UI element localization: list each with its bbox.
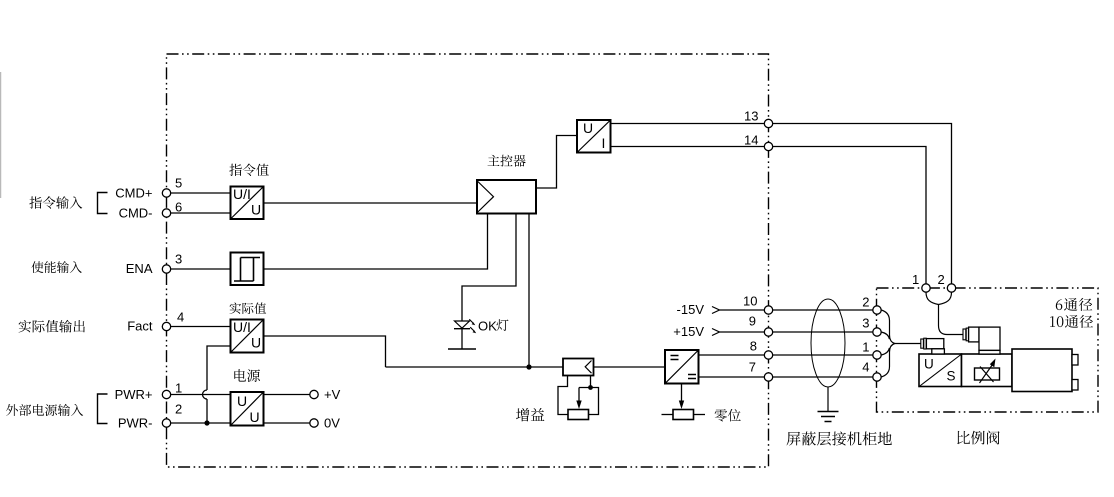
ground bar 3 xyxy=(825,421,832,423)
label 使能输入 enable input xyxy=(31,261,82,273)
terminal +V xyxy=(310,390,318,398)
block zero (DC-DC) xyxy=(665,350,699,384)
block actual value U/I-U xyxy=(231,320,264,353)
terminal 9 xyxy=(764,328,772,336)
svg-text:U: U xyxy=(583,120,593,136)
bracket command input pair xyxy=(98,193,108,214)
svg-text:10: 10 xyxy=(743,294,757,309)
valve terminal 4 xyxy=(873,373,881,381)
bracket pins 2/3/1/4 merge xyxy=(881,310,895,377)
valve solenoid section xyxy=(962,354,1013,387)
svg-text:U/I: U/I xyxy=(233,319,251,335)
label 比例阀 proportional valve xyxy=(957,431,999,445)
page edge artifact xyxy=(0,72,2,198)
solenoid inner box xyxy=(975,368,1000,380)
wire actual supply branch lower xyxy=(206,399,208,423)
terminal 5 CMD+ xyxy=(162,189,170,197)
cable shield ellipse xyxy=(811,299,845,387)
zero pot left lead xyxy=(662,414,674,416)
wire +15V to pin 9 xyxy=(720,331,873,333)
block command value U/I-U xyxy=(231,187,264,220)
svg-text:+15V: +15V xyxy=(673,324,704,339)
wire command block to controller xyxy=(264,202,478,204)
svg-text:1: 1 xyxy=(175,381,182,396)
svg-text:2: 2 xyxy=(938,272,945,287)
potentiometer zero xyxy=(673,410,694,420)
wire Fact (pin 4 to actual block) xyxy=(171,326,231,328)
label 外部电源输入 external power input xyxy=(6,404,83,416)
controller triangle xyxy=(478,182,494,213)
diagonal U-S box xyxy=(920,355,961,387)
svg-text:U: U xyxy=(251,335,261,351)
svg-text:-15V: -15V xyxy=(677,302,705,317)
shield ground stem xyxy=(827,387,829,412)
bracket join pin 3 xyxy=(881,332,889,339)
ground bar 2 xyxy=(821,416,835,418)
bracket power input pair xyxy=(98,394,108,424)
gain pot left leg xyxy=(558,376,568,415)
junction controller/bus xyxy=(526,364,531,369)
wire CMD- (pin 6 to command block) xyxy=(171,212,231,214)
valve top pin curves merge xyxy=(926,292,952,304)
valve plug large (on solenoid) xyxy=(963,327,1000,354)
svg-text:CMD+: CMD+ xyxy=(115,186,152,201)
svg-text:2: 2 xyxy=(175,402,182,417)
svg-text:5: 5 xyxy=(175,176,182,191)
wire controller to U/I converter xyxy=(536,136,577,189)
block enable hysteresis xyxy=(231,253,264,286)
wire -15V to pin 10 xyxy=(720,309,873,311)
junction on PWR- wire xyxy=(204,420,209,425)
label 灯 of OK lamp xyxy=(496,319,508,331)
svg-text:4: 4 xyxy=(862,360,869,375)
proportional valve border (dash-dot) xyxy=(877,288,1099,412)
gain wiper bar xyxy=(579,388,599,415)
valve body xyxy=(1012,349,1072,392)
svg-text:2: 2 xyxy=(862,295,869,310)
bracket join pin 1 xyxy=(881,348,889,355)
valve transducer U-S box xyxy=(919,354,962,387)
wire 13 (U/I out to valve pin 2) xyxy=(611,124,952,285)
wire bracket to valve plug xyxy=(895,343,921,345)
solenoid cross stroke xyxy=(980,367,994,383)
svg-text:S: S xyxy=(947,369,956,384)
zero pot arrow shaft xyxy=(681,384,683,402)
label 指令值 command value xyxy=(229,164,269,176)
terminal 14 xyxy=(764,142,772,150)
wire CMD+ (pin 5 to command block) xyxy=(171,192,231,194)
terminal 13 xyxy=(764,119,772,127)
solenoid arrowhead xyxy=(990,359,996,368)
svg-text:3: 3 xyxy=(175,252,182,267)
terminal 7 xyxy=(764,373,772,381)
svg-text:0V: 0V xyxy=(324,416,340,431)
label 零位 zero xyxy=(715,409,741,422)
valve tab lower xyxy=(1072,380,1078,391)
gain chevron xyxy=(585,361,591,374)
gain wiper arrowhead xyxy=(576,401,581,410)
label 实际值 actual value xyxy=(230,303,267,315)
terminal 6 CMD- xyxy=(162,209,170,217)
svg-text:U: U xyxy=(237,393,247,409)
svg-text:PWR-: PWR- xyxy=(118,416,153,431)
terminal 8 xyxy=(764,351,772,359)
wire PWR- (pin 2 to power block) xyxy=(171,422,231,424)
wire actual block to signal bus xyxy=(264,336,386,367)
terminal 4 Fact xyxy=(162,322,170,330)
svg-text:U: U xyxy=(924,357,934,372)
solenoid arrow shaft xyxy=(980,364,994,384)
svg-text:13: 13 xyxy=(744,109,758,124)
label 10通径 xyxy=(1050,315,1093,328)
svg-text:9: 9 xyxy=(749,314,756,329)
valve plug terminal 2 xyxy=(947,284,955,292)
valve terminal 1b xyxy=(873,351,881,359)
valve tab upper xyxy=(1072,355,1078,366)
arrow +15V xyxy=(712,329,720,336)
wire controller to bus xyxy=(528,214,530,368)
terminal 2 PWR- xyxy=(162,419,170,427)
valve plug terminal 1 xyxy=(922,284,930,292)
wire 14 (U/I out to valve pin 1) xyxy=(611,147,927,285)
label 实际值输出 actual value output xyxy=(19,320,85,333)
diagonal actual block xyxy=(232,321,263,352)
svg-text:ENA: ENA xyxy=(126,261,153,276)
svg-text:I: I xyxy=(602,135,606,151)
svg-text:3: 3 xyxy=(862,316,869,331)
svg-text:U/I: U/I xyxy=(233,186,251,202)
valve terminal 2 xyxy=(873,306,881,314)
wire controller to OK LED xyxy=(462,214,516,322)
block main controller U1 xyxy=(477,180,536,214)
terminal 10 xyxy=(764,306,772,314)
diagonal command block xyxy=(232,188,263,219)
valve plug small (on U/S box) xyxy=(921,338,945,354)
label 主控器 main controller xyxy=(488,155,526,167)
LED OK lamp xyxy=(448,319,476,349)
svg-text:14: 14 xyxy=(744,133,758,148)
block gain xyxy=(563,359,594,376)
label 屏蔽层接机柜地 shield to cabinet ground xyxy=(787,432,892,446)
terminal 1 PWR+ xyxy=(162,390,170,398)
svg-text:8: 8 xyxy=(750,339,757,354)
hysteresis symbol xyxy=(234,258,260,282)
equals top-left xyxy=(671,356,679,360)
wire enable block to controller xyxy=(264,214,488,270)
zero pot right lead xyxy=(694,414,706,416)
svg-text:6: 6 xyxy=(175,200,182,215)
label 6通径 xyxy=(1056,298,1093,311)
wire crossover hop over PWR+ xyxy=(203,390,208,399)
signal bus to gain and zero blocks xyxy=(386,366,665,368)
svg-text:OK: OK xyxy=(478,319,497,334)
svg-text:U: U xyxy=(251,202,261,218)
gain pot right leg xyxy=(590,376,592,388)
arrow -15V xyxy=(712,307,720,314)
diagonal U/I converter xyxy=(578,121,610,152)
diagonal zero block xyxy=(666,351,698,383)
wire PWR+ (pin 1 to power block) xyxy=(171,394,231,396)
label 指令输入 command input xyxy=(29,196,82,208)
block U/I converter xyxy=(577,120,611,153)
wire power +V output xyxy=(264,394,310,396)
gain wiper arrow shaft xyxy=(578,388,580,403)
svg-text:1: 1 xyxy=(912,272,919,287)
svg-text:Fact: Fact xyxy=(127,319,153,334)
valve terminal 3 xyxy=(873,328,881,336)
wire merged pins to solenoid plug xyxy=(939,305,964,335)
junction gain wiper xyxy=(588,385,593,390)
wire actual block supply branch upper xyxy=(207,346,230,390)
wire zero block to pin 7 xyxy=(699,376,873,378)
wire power 0V output xyxy=(264,422,310,424)
diagonal power block xyxy=(232,393,263,425)
svg-text:+V: +V xyxy=(324,387,341,402)
equals bottom-right xyxy=(688,375,696,379)
terminal 0V xyxy=(310,419,318,427)
block power supply U-U xyxy=(231,392,264,426)
svg-text:7: 7 xyxy=(749,360,756,375)
svg-text:4: 4 xyxy=(177,310,184,325)
svg-text:PWR+: PWR+ xyxy=(115,387,153,402)
zero wiper arrowhead xyxy=(679,401,684,410)
wire ENA (pin 3 to enable block) xyxy=(171,268,231,270)
svg-text:CMD-: CMD- xyxy=(119,206,153,221)
svg-text:1: 1 xyxy=(862,340,869,355)
label 增益 gain xyxy=(516,408,544,421)
wire zero block to pin 8 xyxy=(699,354,873,356)
svg-text:U: U xyxy=(250,409,260,425)
ground bar 1 xyxy=(818,411,839,413)
potentiometer gain xyxy=(568,410,589,420)
amplifier card border (dash-dot) xyxy=(167,54,769,467)
terminal 3 ENA xyxy=(162,265,170,273)
label 电源 power xyxy=(234,369,260,382)
